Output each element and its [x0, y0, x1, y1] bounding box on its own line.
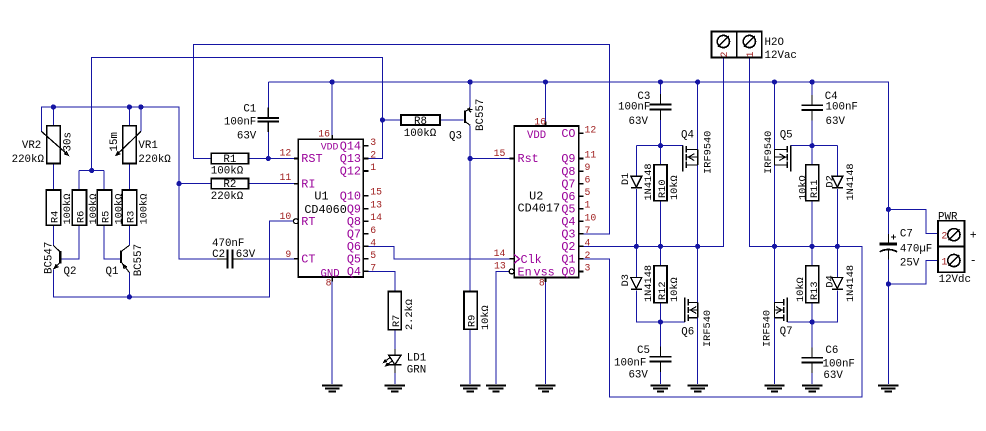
svg-text:12Vdc: 12Vdc — [939, 274, 971, 286]
svg-text:R11: R11 — [809, 179, 821, 198]
svg-text:C2: C2 — [212, 249, 225, 261]
svg-text:Q4: Q4 — [681, 130, 694, 142]
svg-text:+: + — [970, 230, 977, 243]
svg-text:Q7: Q7 — [780, 326, 793, 338]
svg-text:9: 9 — [585, 162, 591, 173]
svg-text:10kΩ: 10kΩ — [669, 175, 681, 200]
svg-text:IRF540: IRF540 — [762, 310, 774, 347]
svg-text:7: 7 — [585, 225, 591, 236]
svg-text:220kΩ: 220kΩ — [12, 154, 45, 166]
svg-text:16: 16 — [534, 116, 546, 127]
svg-text:-: - — [970, 255, 977, 268]
svg-text:5: 5 — [585, 187, 591, 198]
svg-text:D1: D1 — [620, 173, 632, 185]
svg-text:25V: 25V — [900, 258, 920, 270]
svg-text:6: 6 — [585, 175, 591, 186]
svg-text:100nF: 100nF — [614, 358, 646, 370]
svg-text:10kΩ: 10kΩ — [798, 175, 810, 200]
svg-text:D4: D4 — [825, 275, 837, 287]
svg-text:11: 11 — [585, 150, 597, 161]
svg-text:CT: CT — [301, 253, 315, 267]
svg-text:PWR: PWR — [938, 212, 958, 224]
svg-text:VR2: VR2 — [22, 140, 41, 152]
svg-text:63V: 63V — [628, 370, 648, 382]
svg-text:C7: C7 — [900, 228, 913, 240]
svg-text:2: 2 — [941, 232, 947, 243]
svg-text:100kΩ: 100kΩ — [62, 194, 74, 225]
svg-text:9: 9 — [285, 249, 291, 260]
svg-text:RI: RI — [301, 177, 315, 191]
svg-text:100nF: 100nF — [823, 358, 855, 370]
svg-text:15m: 15m — [109, 132, 121, 151]
svg-text:100kΩ: 100kΩ — [138, 194, 150, 225]
svg-text:1N4148: 1N4148 — [845, 163, 857, 200]
svg-text:1: 1 — [585, 200, 591, 211]
svg-text:Q5: Q5 — [780, 130, 793, 142]
svg-text:14: 14 — [494, 248, 506, 259]
svg-text:C1: C1 — [243, 104, 256, 116]
svg-text:R9: R9 — [467, 315, 479, 327]
svg-text:IRF9540: IRF9540 — [763, 131, 775, 174]
svg-text:4: 4 — [585, 237, 591, 248]
svg-text:1: 1 — [370, 162, 376, 173]
svg-text:Q0: Q0 — [561, 265, 575, 279]
svg-text:VR1: VR1 — [138, 140, 157, 152]
svg-text:D2: D2 — [825, 175, 837, 187]
svg-text:Rst: Rst — [518, 152, 539, 166]
svg-text:1N4148: 1N4148 — [643, 265, 655, 302]
svg-text:63V: 63V — [629, 116, 649, 128]
svg-text:R2: R2 — [223, 179, 236, 191]
svg-text:1: 1 — [746, 51, 757, 57]
svg-text:VDD: VDD — [321, 141, 339, 152]
svg-text:470nF: 470nF — [212, 238, 244, 250]
svg-text:IRF9540: IRF9540 — [703, 131, 715, 174]
svg-text:R1: R1 — [223, 154, 236, 166]
svg-text:30s: 30s — [62, 132, 74, 151]
svg-text:15: 15 — [494, 148, 506, 159]
svg-text:16: 16 — [318, 128, 330, 139]
svg-text:C5: C5 — [637, 345, 650, 357]
svg-text:2.2kΩ: 2.2kΩ — [404, 299, 416, 330]
svg-text:IRF540: IRF540 — [702, 310, 714, 347]
svg-text:BC547: BC547 — [44, 242, 56, 274]
svg-text:1N4148: 1N4148 — [643, 163, 655, 200]
svg-text:10: 10 — [585, 212, 597, 223]
svg-text:13: 13 — [494, 261, 506, 272]
svg-text:Q6: Q6 — [681, 327, 694, 339]
svg-text:2: 2 — [370, 150, 376, 161]
svg-text:220kΩ: 220kΩ — [211, 191, 244, 203]
svg-text:220kΩ: 220kΩ — [138, 154, 171, 166]
svg-text:Q12: Q12 — [340, 165, 361, 179]
svg-text:Q10: Q10 — [340, 189, 361, 203]
svg-text:12Vac: 12Vac — [765, 50, 797, 62]
svg-text:U1: U1 — [314, 190, 328, 204]
svg-text:C6: C6 — [825, 345, 838, 357]
svg-text:BC557: BC557 — [133, 244, 145, 276]
svg-text:R13: R13 — [809, 281, 821, 300]
svg-text:100nF: 100nF — [224, 116, 256, 128]
svg-text:Q1: Q1 — [106, 266, 119, 278]
svg-text:2: 2 — [720, 51, 731, 57]
svg-text:12: 12 — [280, 147, 292, 158]
svg-text:R8: R8 — [414, 116, 427, 128]
svg-text:5: 5 — [370, 250, 376, 261]
svg-text:3: 3 — [370, 137, 376, 148]
svg-text:2: 2 — [585, 250, 591, 261]
svg-text:R4: R4 — [49, 211, 61, 223]
svg-text:63V: 63V — [823, 370, 843, 382]
svg-text:4: 4 — [370, 237, 376, 248]
svg-text:14: 14 — [370, 212, 382, 223]
svg-text:R5: R5 — [101, 211, 113, 223]
svg-text:63V: 63V — [237, 130, 257, 142]
svg-text:1N4148: 1N4148 — [845, 265, 857, 302]
svg-text:100kΩ: 100kΩ — [88, 194, 100, 225]
svg-text:LD1: LD1 — [407, 353, 426, 365]
svg-text:15: 15 — [370, 187, 382, 198]
svg-text:3: 3 — [585, 262, 591, 273]
svg-text:8: 8 — [326, 278, 332, 289]
svg-text:100kΩ: 100kΩ — [211, 166, 244, 178]
svg-text:CD4060: CD4060 — [304, 203, 346, 217]
svg-text:10kΩ: 10kΩ — [669, 277, 681, 302]
svg-text:10kΩ: 10kΩ — [795, 277, 807, 302]
svg-text:RST: RST — [301, 152, 322, 166]
svg-text:1: 1 — [941, 257, 947, 268]
svg-text:GRN: GRN — [407, 364, 426, 376]
svg-text:R12: R12 — [657, 281, 669, 300]
svg-text:13: 13 — [370, 200, 382, 211]
svg-text:Q2: Q2 — [64, 266, 77, 278]
svg-text:BC557: BC557 — [475, 99, 487, 131]
svg-text:VDD: VDD — [527, 130, 546, 142]
svg-text:10kΩ: 10kΩ — [480, 305, 492, 330]
svg-text:100kΩ: 100kΩ — [404, 128, 437, 140]
svg-text:R3: R3 — [126, 211, 138, 223]
svg-text:6: 6 — [370, 225, 376, 236]
svg-text:63V: 63V — [236, 249, 256, 261]
svg-text:D3: D3 — [620, 274, 632, 286]
svg-text:En: En — [518, 266, 532, 280]
svg-text:Q4: Q4 — [347, 265, 361, 279]
svg-text:7: 7 — [370, 262, 376, 273]
svg-text:470µF: 470µF — [900, 244, 932, 256]
svg-text:100nF: 100nF — [826, 102, 858, 114]
svg-text:63V: 63V — [826, 116, 846, 128]
svg-text:100nF: 100nF — [618, 102, 650, 114]
svg-text:Q3: Q3 — [449, 131, 462, 143]
svg-text:R7: R7 — [391, 315, 403, 327]
svg-text:R6: R6 — [75, 211, 87, 223]
svg-text:R10: R10 — [657, 179, 669, 198]
svg-text:CD4017: CD4017 — [518, 201, 560, 215]
svg-text:12: 12 — [585, 124, 597, 135]
svg-text:8: 8 — [539, 277, 545, 288]
svg-text:CO: CO — [561, 127, 575, 141]
svg-text:10: 10 — [280, 211, 292, 222]
svg-text:H2O: H2O — [765, 37, 784, 49]
svg-text:11: 11 — [280, 172, 292, 183]
svg-text:100kΩ: 100kΩ — [113, 194, 125, 225]
